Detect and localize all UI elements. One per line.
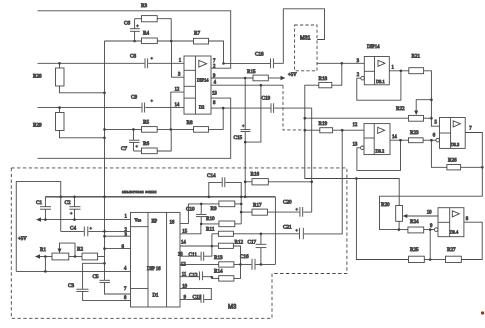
wire pin9 row to R15 (211, 77, 253, 79)
wire R21 right down to pin5 (424, 71, 440, 126)
svg-text:+: + (151, 56, 154, 61)
wire pin13 row (180, 255, 201, 257)
svg-text:+: + (136, 23, 139, 28)
node R4-R7 junction (170, 40, 173, 43)
node C12-R14 junction (211, 276, 214, 279)
resistor R12 (218, 240, 243, 249)
svg-text:8: 8 (466, 217, 469, 222)
resistor R14 (212, 264, 241, 281)
node R19-C21 junction (341, 129, 344, 132)
svg-text:M31: M31 (300, 36, 311, 42)
capacitor C8 (130, 54, 154, 69)
resistor R28 (33, 63, 64, 86)
wire R19 to D3.2 pin12 (333, 129, 364, 131)
wire R16 row (245, 181, 252, 183)
svg-text:D3.2: D3.2 (376, 149, 385, 154)
node R16-C20 junction (310, 181, 313, 184)
wire pin3 riser (172, 41, 185, 77)
svg-text:1: 1 (179, 59, 182, 64)
wire R22 wiper arrow (414, 100, 431, 115)
node D3.2 output junction (399, 139, 402, 142)
resistor R15 (247, 69, 268, 81)
pin 9 bubble D3.4 (434, 228, 438, 232)
svg-text:C12: C12 (189, 273, 198, 279)
wire R25 right stub (424, 259, 430, 261)
svg-text:+5V: +5V (18, 237, 27, 242)
svg-text:6: 6 (433, 134, 436, 139)
wire R8 right to pin8 node (209, 108, 224, 129)
resistor R17 (252, 203, 267, 216)
resistor R16 (251, 172, 269, 185)
node R1 left (44, 255, 47, 258)
wire pin12 drop (171, 92, 184, 129)
wire pin15 riser (180, 224, 201, 234)
wire pin14 row (180, 245, 218, 247)
svg-text:R8: R8 (187, 120, 193, 126)
wire top bus to D2 pin2 (38, 11, 231, 68)
node C4-bus (103, 230, 106, 233)
op-amp U-D3.1 (364, 57, 389, 85)
svg-text:12: 12 (181, 263, 186, 268)
wire R22 to riser (424, 117, 432, 119)
op-amp U-D3.4 (438, 208, 464, 237)
node ground-C14 left (208, 196, 211, 199)
node R1-R2 junction (74, 255, 77, 258)
node C17 top (260, 233, 263, 236)
pin 2 bubble D3.1 (361, 76, 365, 80)
svg-text:R10: R10 (206, 216, 215, 222)
capacitor C1 (36, 197, 51, 220)
capacitor C14 loop (207, 173, 241, 197)
svg-text:C18: C18 (255, 52, 264, 58)
svg-text:R14: R14 (214, 269, 223, 275)
resistor R5 (142, 120, 158, 133)
svg-text:Vss: Vss (135, 218, 142, 223)
svg-text:10: 10 (182, 284, 187, 289)
wire C4 row (pin2) (60, 197, 62, 232)
svg-text:M3: M3 (228, 305, 237, 311)
resistor R7 (194, 31, 209, 45)
resistor R21 (409, 54, 424, 74)
node C1 bottom (44, 218, 47, 221)
resistor R25 (409, 247, 425, 262)
wire C14 node down through R9 R17 R10 (240, 197, 242, 224)
wire R13 to C16 (234, 263, 252, 265)
svg-text:+: + (296, 206, 299, 211)
wire R15 to +5V arrow (268, 77, 281, 79)
svg-text:+: + (136, 144, 139, 149)
svg-text:C15: C15 (234, 135, 243, 141)
svg-text:R17: R17 (253, 203, 262, 209)
svg-text:R9: R9 (211, 206, 217, 212)
dashed box M3 (11, 168, 347, 318)
svg-text:14: 14 (392, 135, 397, 140)
capacitor C21 (283, 224, 303, 239)
wire R22 row (305, 117, 409, 119)
capacitor C15 (234, 78, 251, 142)
svg-text:C10: C10 (186, 207, 195, 213)
wire R12 right drop to C16 node (233, 246, 240, 264)
wire vertical bus (104, 41, 106, 263)
capacitor C18 (255, 52, 273, 69)
wire R24 to D3.4 pin9 (424, 229, 435, 231)
svg-text:C9: C9 (131, 95, 137, 101)
node R9 right (240, 203, 243, 206)
wire C15 bottom loop to pin4 (245, 85, 261, 142)
wire pin6 node down to R26 (431, 140, 447, 167)
wire R7 to D2 pin7 node (209, 41, 224, 63)
wire C18 over-the-top loop into M31 (274, 9, 325, 64)
node pin14-R12 junction (211, 245, 214, 248)
node rail-R22 (304, 117, 307, 120)
wire R1 left drop to +5V row (44, 257, 46, 272)
wire pin9 row (180, 299, 201, 301)
module M31 dashed box (295, 25, 317, 71)
node C10 bottom (200, 223, 203, 226)
capacitor C12 (189, 271, 202, 280)
svg-text:R5: R5 (143, 120, 149, 126)
svg-text:R27: R27 (447, 247, 456, 253)
wire C16 to ground drop (256, 263, 276, 265)
svg-text:R3: R3 (141, 3, 147, 9)
node bus-R29 (103, 137, 106, 140)
wire D3.3 output big loop to R20 bottom (380, 133, 483, 230)
wire pin9 node down to R25 row (429, 230, 431, 260)
svg-text:R4: R4 (143, 31, 149, 37)
node C16-C17 junction (260, 263, 263, 266)
wire R28 bottom to bus (60, 86, 105, 93)
svg-text:C2: C2 (65, 200, 71, 206)
wire input rail to C9 (38, 107, 142, 109)
svg-text:16: 16 (170, 220, 175, 225)
pin 13 bubble D3.2 (361, 146, 365, 150)
svg-text:13: 13 (212, 91, 217, 96)
svg-text:R20: R20 (381, 202, 390, 208)
wire C12 to node (203, 276, 212, 278)
svg-text:9: 9 (430, 224, 433, 229)
svg-text:1: 1 (392, 66, 395, 71)
node C7 junction (132, 128, 135, 131)
wire R16 right to C20 riser (268, 181, 311, 183)
capacitor C2 (65, 197, 81, 220)
svg-text:R11: R11 (206, 226, 215, 232)
node bus-C3 branch (103, 262, 106, 265)
node bus-pin3 (103, 235, 106, 238)
resistor R11 (206, 226, 299, 236)
node ground-C14 right (240, 196, 243, 199)
resistor R23 (409, 130, 424, 143)
wire R25 left riser to rail (356, 179, 408, 260)
node rail-R19 (304, 129, 307, 132)
op-amp U-D2 DIP14 package (184, 56, 211, 114)
wire C21 to R19 riser (304, 130, 342, 234)
svg-text:DIP14: DIP14 (197, 77, 209, 82)
wire pin7 row to C18 (224, 62, 271, 64)
wire R5 to R8 (157, 128, 193, 130)
wire R4 to R7 (157, 40, 193, 42)
potentiometer R22 (396, 106, 424, 121)
capacitor C4 (61, 226, 131, 237)
wire R2 to bus (98, 256, 105, 258)
svg-text:D3.4: D3.4 (450, 230, 459, 235)
op-amp U-D3.3 (440, 118, 466, 149)
svg-text:13: 13 (178, 253, 183, 258)
node C2 bottom (73, 218, 76, 221)
wire input rail to C8 (38, 62, 145, 64)
svg-text:11: 11 (182, 273, 187, 278)
svg-text:R24: R24 (410, 219, 419, 225)
svg-text:C20: C20 (283, 200, 292, 206)
node +5V-R1 (44, 270, 47, 273)
resistor R29 (33, 108, 64, 131)
node ground-+5V drop (59, 196, 62, 199)
node pin3-R18 junction (341, 62, 344, 65)
wire pin3 row (105, 235, 131, 237)
svg-text:R19: R19 (319, 121, 328, 127)
svg-text:C3: C3 (68, 283, 74, 289)
pin 6 bubble D3.3 (436, 138, 440, 142)
svg-text:C1: C1 (36, 200, 42, 206)
node C15 bottom junction (244, 141, 247, 144)
wire D3.1 output to R21 (389, 70, 409, 72)
wire R27 to pin9 riser (430, 259, 445, 261)
svg-text:14: 14 (181, 241, 186, 246)
wire R18 left rail down to R20 (305, 85, 399, 205)
wire R26 to output riser (461, 166, 483, 168)
node pin12-R5 junction (170, 128, 173, 131)
svg-text:6: 6 (122, 245, 125, 250)
svg-text:аналоговая земля: аналоговая земля (122, 190, 157, 194)
svg-text:D3.1: D3.1 (376, 79, 385, 84)
svg-text:R15: R15 (247, 69, 256, 75)
wire pin16 riser (180, 204, 188, 224)
svg-text:R18: R18 (319, 76, 328, 82)
svg-text:1: 1 (125, 214, 128, 219)
svg-text:4: 4 (124, 266, 127, 271)
svg-text:+: + (151, 98, 154, 103)
svg-text:R7: R7 (194, 31, 200, 37)
wire pin12 row (180, 263, 219, 265)
wire D3.4 output loop to R27 (461, 222, 482, 259)
wire pin4 row (211, 84, 283, 86)
wire R6 right riser (157, 129, 171, 151)
svg-text:C8: C8 (130, 54, 136, 60)
node R28 junction (58, 62, 61, 65)
red artifact dot (481, 311, 484, 314)
node bus-R28 (103, 92, 106, 95)
resistor R8 (187, 120, 209, 132)
node bus-R5 (103, 128, 106, 131)
svg-text:+: + (70, 211, 73, 216)
wire +5V L-rail (16, 182, 61, 272)
resistor R6 (134, 141, 158, 154)
wire R20 bottom stub (398, 221, 400, 229)
svg-text:R1: R1 (40, 247, 46, 253)
capacitor C3 (68, 263, 131, 300)
svg-text:C19: C19 (262, 96, 271, 102)
resistor R18 (319, 76, 332, 88)
resistor R10 (201, 216, 241, 227)
svg-text:C7: C7 (121, 146, 127, 152)
resistor R3 (135, 3, 158, 22)
node R20-R24 junction (398, 228, 401, 231)
wire ground rail (analog ground) (45, 196, 275, 198)
wire R20 wiper arrow from pin10 (403, 214, 438, 218)
wire R29 bottom to bus (60, 131, 105, 138)
wire M31 to D3.1 pin3 (317, 62, 364, 64)
svg-text:+: + (242, 123, 245, 128)
svg-text:R6: R6 (143, 141, 149, 147)
capacitor C10 (186, 204, 207, 224)
node C6-R4 junction (133, 40, 136, 43)
svg-text:D1: D1 (153, 294, 159, 299)
node R22-riser (430, 117, 433, 120)
svg-text:15: 15 (182, 229, 187, 234)
dashed link M31 to R19 node (283, 86, 305, 130)
svg-text:D3.3: D3.3 (451, 142, 460, 147)
capacitor C9 (131, 95, 154, 113)
node ground-bus (103, 196, 106, 199)
node C10 top (200, 203, 203, 206)
svg-text:R13: R13 (214, 255, 223, 261)
svg-text:R21: R21 (412, 54, 421, 60)
node ground-C2 (73, 196, 76, 199)
svg-text:5: 5 (435, 121, 438, 126)
capacitor C6 (124, 19, 140, 41)
svg-text:R26: R26 (448, 158, 457, 164)
node pin7 junction (222, 62, 225, 65)
node R16 left (244, 181, 247, 184)
svg-text:8: 8 (213, 101, 216, 106)
wire C15 node down to ground rail (244, 142, 246, 197)
wire pin10 loop to pin9 (180, 288, 211, 299)
svg-text:C4: C4 (70, 226, 76, 232)
wire R1 row arrow (35, 254, 52, 258)
svg-text:+: + (296, 228, 299, 233)
svg-text:R22: R22 (396, 106, 405, 112)
node D3.1 output junction (400, 70, 403, 73)
node R26-output (481, 166, 484, 169)
svg-text:C11: C11 (189, 252, 198, 258)
svg-text:+: + (90, 226, 93, 231)
resistor R24 (408, 219, 424, 233)
wire pin11 row (180, 276, 199, 278)
capacitor C16 (240, 254, 255, 270)
svg-text:C14: C14 (207, 173, 216, 179)
svg-text:3: 3 (125, 233, 128, 238)
capacitor C20 (283, 200, 303, 217)
wire R11 left drop to pin14 and C11 (204, 234, 212, 256)
node R25-R27 junction (429, 258, 432, 261)
resistor R26 (447, 158, 461, 170)
node pin6 junction (430, 139, 433, 142)
wire C19 right corner down to C20 (274, 108, 312, 212)
resistor R4 (142, 31, 158, 44)
svg-text:7: 7 (469, 126, 472, 131)
wire C8 to D2 pin1 (148, 62, 184, 64)
node bus-pin6 (103, 247, 106, 250)
svg-text:R25: R25 (410, 247, 419, 253)
svg-text:2: 2 (357, 73, 360, 78)
svg-text:EP: EP (152, 219, 158, 224)
wire R17 to C20 (267, 211, 299, 213)
wire ground rail drop to C16 row (274, 197, 276, 265)
resistor R2 (77, 247, 98, 260)
node pin8-R8 junction (222, 107, 225, 110)
svg-text:14: 14 (175, 103, 180, 108)
wire R23 to D3.3 pin6 (423, 139, 436, 141)
wire bus corner to R4 (105, 40, 142, 42)
node R22 wiper tap (430, 98, 433, 101)
wire pin4 +5V row (16, 270, 130, 272)
svg-text:R2: R2 (77, 247, 83, 253)
svg-text:2: 2 (213, 65, 216, 70)
wire R18 drop (332, 63, 342, 85)
wire pin6 row (105, 248, 131, 250)
resistor R13 (214, 255, 234, 267)
resistor R19 (319, 121, 333, 133)
resistor R9 (188, 201, 241, 212)
wire R5 row from bus (105, 128, 142, 130)
capacitor C5 (93, 263, 131, 294)
svg-text:13: 13 (353, 143, 358, 148)
node ground-C15riser (244, 196, 247, 199)
wire C20 right riser (303, 211, 311, 213)
svg-text:7: 7 (213, 59, 216, 64)
wire pin8 row to C19 (211, 107, 271, 109)
svg-text:C16: C16 (240, 254, 249, 260)
svg-text:C6: C6 (124, 21, 130, 27)
op-amp U-D3.2 (364, 124, 390, 155)
wire R24 row (399, 229, 408, 231)
node R25 rail tap (355, 177, 358, 180)
capacitor C17 (248, 234, 267, 265)
svg-text:+5V: +5V (288, 73, 297, 78)
node R29 junction (58, 106, 61, 109)
svg-text:12: 12 (353, 123, 358, 128)
node pin9 junction (429, 228, 432, 231)
svg-text:R16: R16 (251, 172, 260, 178)
svg-text:12: 12 (175, 87, 180, 92)
svg-text:C21: C21 (283, 224, 292, 230)
svg-text:DIP 16: DIP 16 (147, 267, 161, 272)
wire R1 to R2 (69, 256, 82, 258)
node R13-C16 junction (239, 263, 242, 266)
svg-text:R12: R12 (235, 240, 244, 246)
node R17 row tap (240, 211, 243, 214)
node pin9-C15 junction (244, 77, 247, 80)
svg-text:7: 7 (124, 287, 127, 292)
wire R17 row (241, 211, 252, 213)
node pin4-C15loop junction (260, 84, 263, 87)
wire D3.2 output to R23 (390, 139, 409, 141)
svg-text:C17: C17 (248, 239, 257, 245)
wire ground arrow row (pin1) (36, 217, 131, 221)
wire D3.1 feedback loop (357, 71, 401, 100)
svg-text:10: 10 (427, 211, 432, 216)
IC D1 DIP16 package (131, 212, 181, 307)
wire C9 to D2 pin14 (145, 107, 184, 109)
potentiometer R1 (40, 243, 75, 260)
svg-text:R29: R29 (33, 123, 42, 129)
capacitor C7 (121, 129, 140, 152)
resistor R27 (446, 247, 462, 262)
svg-text:D2: D2 (199, 104, 204, 109)
capacitor C11 (189, 252, 204, 261)
svg-text:R23: R23 (410, 130, 419, 136)
svg-text:DIP14: DIP14 (367, 45, 380, 50)
svg-text:R28: R28 (33, 74, 42, 80)
